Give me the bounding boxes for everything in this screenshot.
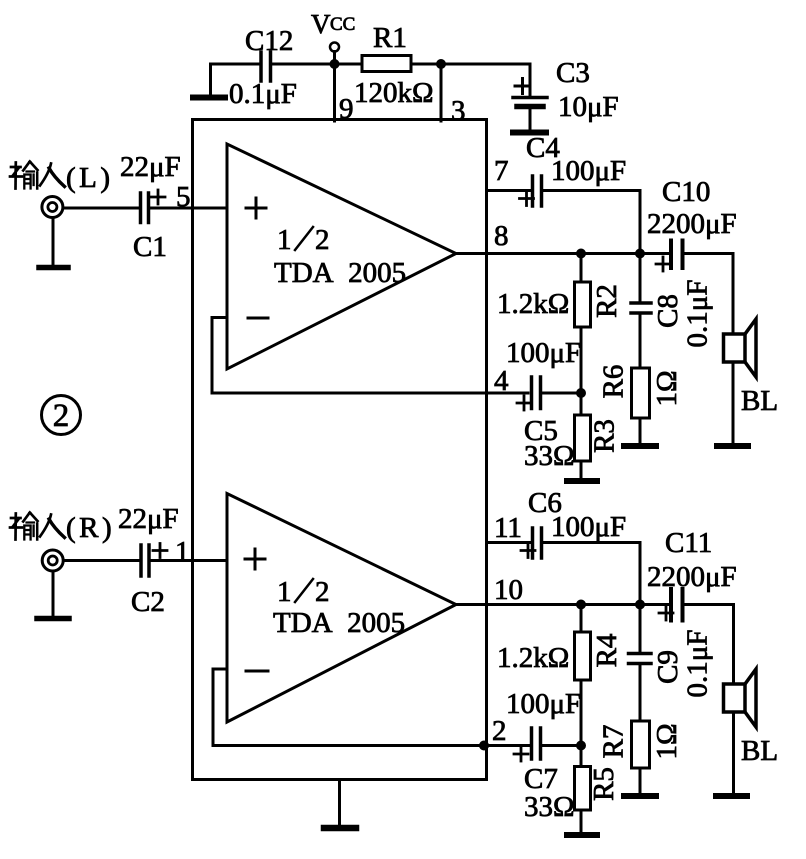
svg-text:R5: R5 bbox=[588, 767, 620, 801]
svg-text:22μF: 22μF bbox=[118, 503, 179, 535]
capacitor C12 bbox=[229, 25, 297, 110]
svg-text:C2: C2 bbox=[131, 586, 165, 618]
node junction C8 top bbox=[635, 249, 645, 259]
wire connector L to C1 bbox=[63, 207, 139, 210]
resistor R6 bbox=[598, 365, 684, 443]
ground (input L) bbox=[39, 218, 68, 268]
capacitor C11 bbox=[647, 527, 737, 621]
op-amp U1b triangle bbox=[227, 494, 456, 723]
svg-text:3: 3 bbox=[451, 95, 466, 127]
svg-text:100μF: 100μF bbox=[506, 337, 581, 369]
svg-text:C12: C12 bbox=[245, 25, 293, 57]
node label shu-ru (L) bbox=[10, 162, 65, 189]
speaker BL (top) bbox=[724, 319, 779, 443]
wire C2 to pin 1 bbox=[151, 559, 228, 562]
node junction feedback box edge bbox=[479, 741, 489, 751]
wire C7 to R5 node bbox=[542, 744, 581, 747]
resistor R5 bbox=[575, 746, 621, 833]
op-amp U1a triangle bbox=[227, 144, 456, 369]
svg-text:1.2kΩ: 1.2kΩ bbox=[497, 288, 569, 320]
svg-text:BL: BL bbox=[741, 385, 778, 417]
svg-text:V: V bbox=[311, 9, 331, 39]
ground (below C3) bbox=[513, 130, 546, 136]
svg-text:R3: R3 bbox=[589, 419, 621, 453]
capacitor C8 bbox=[631, 254, 714, 369]
node junction R4 top bbox=[576, 600, 586, 610]
svg-text:2200μF: 2200μF bbox=[647, 208, 737, 240]
svg-text:100μF: 100μF bbox=[551, 511, 626, 543]
resistor R3 bbox=[575, 393, 621, 478]
node junction VCC bbox=[330, 59, 340, 69]
svg-text:(R): (R) bbox=[66, 512, 115, 544]
capacitor C3 bbox=[513, 57, 619, 129]
svg-text:R2: R2 bbox=[591, 284, 623, 318]
input connector L bbox=[42, 197, 63, 218]
wire C10 to speaker bbox=[685, 254, 733, 335]
ground (input R) bbox=[37, 571, 69, 619]
svg-text:22μF: 22μF bbox=[120, 151, 181, 183]
node VCC bbox=[311, 9, 355, 52]
ground (R6) bbox=[624, 443, 656, 449]
resistor R4 bbox=[497, 605, 623, 746]
node junction C9 top bbox=[635, 600, 645, 610]
speaker BL (bottom) bbox=[724, 669, 779, 793]
capacitor C5 bbox=[506, 337, 581, 472]
capacitor C4 bbox=[520, 132, 627, 206]
node junction pin4 bbox=[576, 388, 586, 398]
node junction pin2 bbox=[576, 741, 586, 751]
wire connector R to C2 bbox=[64, 559, 139, 562]
svg-text:0.1μF: 0.1μF bbox=[229, 78, 297, 110]
wire C12 to R1 bbox=[272, 63, 362, 66]
capacitor C1 bbox=[133, 190, 167, 263]
ground (speaker top) bbox=[717, 443, 748, 449]
svg-text:R6: R6 bbox=[598, 365, 630, 399]
svg-text:TDA 2005: TDA 2005 bbox=[273, 607, 405, 639]
svg-text:2: 2 bbox=[315, 576, 330, 608]
wire pin 11 to C6 bbox=[487, 541, 531, 544]
svg-text:2: 2 bbox=[53, 398, 70, 434]
capacitor C7 bbox=[506, 688, 581, 823]
svg-text:C11: C11 bbox=[665, 527, 712, 559]
svg-text:100μF: 100μF bbox=[506, 688, 581, 720]
ground (R5) bbox=[567, 832, 597, 838]
wire pin 7 to C4 bbox=[487, 189, 531, 192]
ground (top left, C12) bbox=[193, 64, 225, 98]
svg-text:2: 2 bbox=[492, 715, 507, 747]
svg-text:0.1μF: 0.1μF bbox=[682, 630, 714, 698]
input connector R bbox=[42, 550, 63, 571]
node figure number 2 bbox=[42, 396, 81, 435]
svg-text:33Ω: 33Ω bbox=[524, 440, 575, 472]
wire U1b feedback bbox=[213, 669, 529, 746]
svg-text:R4: R4 bbox=[591, 633, 623, 667]
svg-text:10μF: 10μF bbox=[558, 91, 619, 123]
wire C1 to pin 5 bbox=[150, 207, 227, 210]
svg-text:33Ω: 33Ω bbox=[524, 791, 575, 823]
svg-text:(L): (L) bbox=[66, 162, 114, 194]
svg-text:120kΩ: 120kΩ bbox=[354, 77, 434, 109]
svg-text:C10: C10 bbox=[662, 176, 710, 208]
wire pin 8 output bbox=[456, 252, 668, 255]
capacitor C10 bbox=[647, 176, 737, 271]
ground (R7) bbox=[624, 793, 656, 799]
node junction R2 top bbox=[576, 249, 586, 259]
resistor R1 bbox=[354, 22, 434, 109]
wire pin 10 output bbox=[456, 603, 668, 606]
node input L label bbox=[66, 151, 181, 194]
svg-text:R7: R7 bbox=[598, 725, 630, 759]
svg-text:1Ω: 1Ω bbox=[651, 370, 683, 406]
svg-text:4: 4 bbox=[494, 365, 509, 397]
svg-text:C1: C1 bbox=[133, 231, 167, 263]
svg-text:11: 11 bbox=[494, 512, 522, 544]
svg-text:1: 1 bbox=[277, 576, 292, 608]
capacitor C2 bbox=[131, 544, 167, 619]
svg-text:1: 1 bbox=[277, 224, 292, 256]
svg-text:1.2kΩ: 1.2kΩ bbox=[497, 642, 569, 674]
svg-text:TDA 2005: TDA 2005 bbox=[274, 257, 406, 289]
ground (R3) bbox=[567, 478, 597, 484]
capacitor C9 bbox=[629, 605, 714, 722]
wire pin 9 drop bbox=[333, 64, 336, 121]
resistor R2 bbox=[497, 254, 623, 394]
resistor R7 bbox=[598, 721, 684, 793]
ground (IC bottom) bbox=[324, 780, 356, 829]
wire R1 to C3 branch bbox=[411, 63, 530, 66]
svg-text:1Ω: 1Ω bbox=[651, 723, 683, 759]
svg-text:1: 1 bbox=[175, 536, 190, 568]
wire U1a feedback bbox=[212, 318, 528, 394]
capacitor C6 bbox=[521, 487, 626, 558]
svg-text:10: 10 bbox=[494, 574, 523, 606]
node junction R1 right bbox=[436, 59, 446, 69]
svg-text:R1: R1 bbox=[373, 22, 407, 54]
wire top rail left of C12 bbox=[211, 63, 260, 66]
wire pin 3 drop bbox=[440, 64, 443, 121]
node label shu-ru (R) bbox=[10, 513, 65, 540]
wire C5 to R3 node bbox=[542, 392, 581, 395]
svg-text:CC: CC bbox=[330, 14, 355, 35]
wire C4 to pin8 node bbox=[543, 191, 640, 254]
svg-text:C9: C9 bbox=[652, 650, 684, 684]
ground (speaker bottom) bbox=[716, 793, 747, 799]
svg-text:7: 7 bbox=[494, 155, 509, 187]
svg-text:2200μF: 2200μF bbox=[647, 561, 737, 593]
wire C11 to speaker bbox=[685, 605, 734, 685]
svg-text:8: 8 bbox=[494, 220, 509, 252]
node input R label bbox=[66, 503, 179, 544]
svg-text:0.1μF: 0.1μF bbox=[682, 280, 714, 348]
wire C6 to pin10 node bbox=[543, 543, 640, 605]
wire C3 drop bbox=[529, 64, 532, 96]
wire VCC stem bbox=[333, 52, 336, 65]
svg-text:2: 2 bbox=[315, 224, 330, 256]
svg-text:C3: C3 bbox=[556, 57, 590, 89]
op-amp U1 (IC outline TDA2005) bbox=[193, 120, 487, 780]
svg-text:C8: C8 bbox=[652, 294, 684, 328]
svg-text:BL: BL bbox=[741, 735, 778, 767]
svg-text:100μF: 100μF bbox=[551, 155, 626, 187]
